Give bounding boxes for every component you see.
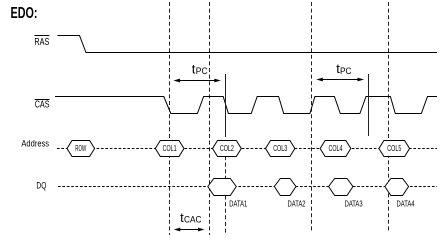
svg-text:COL3: COL3 <box>273 144 287 153</box>
svg-text:ROW: ROW <box>75 144 86 153</box>
svg-text:PC: PC <box>340 66 352 76</box>
address bubble COL5 <box>379 141 410 157</box>
vertical dashed guide line 1 <box>169 2 171 235</box>
DQ bubble DATA2 <box>274 179 296 196</box>
svg-text:COL5: COL5 <box>387 144 401 153</box>
svg-text:CAS: CAS <box>35 100 50 111</box>
svg-text:DQ: DQ <box>36 180 46 191</box>
svg-text:DATA4: DATA4 <box>397 199 415 208</box>
DQ bubble DATA4 <box>385 179 409 196</box>
address bubble ROW <box>67 141 95 157</box>
timing arrow tCAC <box>174 228 205 232</box>
timing arrow tPC (second) <box>316 78 364 82</box>
svg-text:DATA1: DATA1 <box>229 199 247 208</box>
address bubble COL2 <box>213 141 242 157</box>
svg-text:PC: PC <box>196 66 208 76</box>
svg-text:DATA3: DATA3 <box>345 199 363 208</box>
DQ bus dashed baseline <box>58 186 437 188</box>
DQ bubble DATA3 <box>329 179 353 196</box>
address bubble COL4 <box>320 141 351 157</box>
Address bus dashed baseline <box>57 148 437 150</box>
address bubble COL3 <box>266 141 295 157</box>
svg-text:COL2: COL2 <box>220 144 234 153</box>
solid marker line after tPC 2 <box>368 74 370 136</box>
svg-text:EDO:: EDO: <box>11 5 38 22</box>
svg-text:DATA2: DATA2 <box>288 199 306 208</box>
CAS waveform <box>55 97 437 114</box>
solid marker line after tPC 1 <box>225 74 227 137</box>
svg-text:RAS: RAS <box>34 37 49 48</box>
timing arrow tPC (first) <box>174 79 221 83</box>
vertical dashed guide line 2 <box>209 2 211 235</box>
svg-text:COL1: COL1 <box>163 144 177 153</box>
svg-text:COL4: COL4 <box>329 144 343 153</box>
address bubble COL1 <box>155 141 184 157</box>
short vertical dashed line below tPC end marker <box>225 156 227 235</box>
vertical dashed guide line 4 <box>388 2 390 233</box>
RAS waveform <box>58 36 438 53</box>
vertical dashed guide line 3 <box>311 2 313 233</box>
svg-text:CAC: CAC <box>184 215 202 225</box>
DQ bubble DATA1 <box>208 179 237 196</box>
svg-text:Address: Address <box>21 138 49 148</box>
